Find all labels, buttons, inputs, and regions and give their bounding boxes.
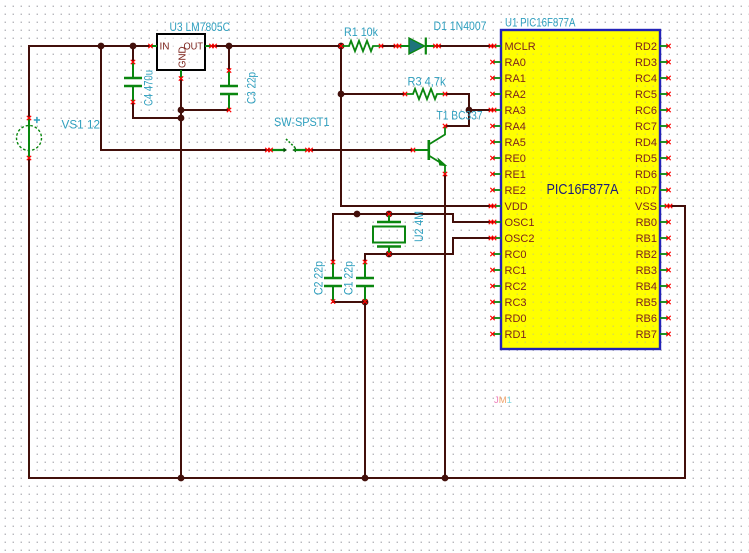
pin RD4 (right) bbox=[635, 137, 671, 149]
wire emitter to ground rail bbox=[444, 174, 446, 478]
junction D OUT/+5 rail bbox=[338, 43, 345, 50]
pin VSS (right) bbox=[635, 201, 672, 213]
svg-text:VSS: VSS bbox=[635, 201, 657, 213]
wire left rail (VS1- down) bbox=[28, 158, 30, 478]
svg-text:RD3: RD3 bbox=[635, 57, 657, 69]
wire D1 to MCLR bbox=[437, 45, 492, 47]
junction F R3-collector-RA3 bbox=[466, 107, 473, 114]
junction I OSC1 wire bbox=[354, 211, 361, 218]
svg-text:T1 BC337: T1 BC337 bbox=[437, 108, 483, 122]
pin RD3 (right) bbox=[635, 57, 671, 69]
svg-text:RD5: RD5 bbox=[635, 153, 657, 165]
switch SW-SPST1 bbox=[265, 139, 313, 152]
junction C OUT/C3 bbox=[226, 43, 233, 50]
pin RB1 (right) bbox=[636, 233, 671, 245]
svg-text:C1 22p: C1 22p bbox=[342, 261, 356, 295]
svg-text:VS1 12: VS1 12 bbox=[62, 117, 101, 131]
pin RB3 (right) bbox=[636, 265, 671, 277]
plus sign of VS1 bbox=[34, 117, 40, 123]
svg-text:RB5: RB5 bbox=[636, 297, 657, 309]
svg-text:IN: IN bbox=[160, 42, 170, 53]
wire OSC1 net (C2/XTAL top) bbox=[333, 214, 492, 262]
svg-text:RD2: RD2 bbox=[635, 41, 657, 53]
resistor R1 10k bbox=[339, 41, 383, 51]
svg-text:C3 22p: C3 22p bbox=[245, 72, 259, 104]
wire C1 bottom to ground rail bbox=[364, 302, 366, 478]
pin RB7 (right) bbox=[636, 329, 671, 341]
wire top rail left (VS1+ to 7805 IN) bbox=[29, 45, 150, 47]
pin RB4 (right) bbox=[636, 281, 671, 293]
wire +5V rail to VDD bbox=[341, 46, 492, 206]
svg-text:RE2: RE2 bbox=[505, 185, 526, 197]
svg-text:RE1: RE1 bbox=[505, 169, 526, 181]
battery VS1 12V bbox=[17, 116, 42, 160]
svg-text:RD0: RD0 bbox=[505, 313, 527, 325]
svg-text:RC1: RC1 bbox=[505, 265, 527, 277]
wire C2 bottom to C1 bottom bbox=[333, 301, 365, 303]
junction M rail bbox=[178, 475, 185, 482]
pin RC7 (right) bbox=[635, 121, 671, 133]
pin RD5 (right) bbox=[635, 153, 671, 165]
wire VS1 top lead bbox=[28, 46, 30, 118]
resistor R3 4,7k bbox=[403, 89, 447, 99]
pin OSC2 (left) bbox=[489, 233, 535, 245]
svg-text:U1 PIC16F877A: U1 PIC16F877A bbox=[505, 16, 576, 30]
pin RC6 (right) bbox=[635, 105, 671, 117]
pin RC5 (right) bbox=[635, 89, 671, 101]
wire switch to T1 base bbox=[309, 149, 413, 151]
regulator U3 LM7805C body bbox=[148, 34, 216, 81]
junction O rail bbox=[442, 475, 449, 482]
pin RB0 (right) bbox=[636, 217, 671, 229]
svg-text:OSC2: OSC2 bbox=[505, 233, 535, 245]
svg-text:RC0: RC0 bbox=[505, 249, 527, 261]
wire R3 to collector node bbox=[445, 94, 469, 126]
svg-text:RC6: RC6 bbox=[635, 105, 657, 117]
svg-text:VDD: VDD bbox=[505, 201, 528, 213]
svg-text:RA0: RA0 bbox=[505, 57, 526, 69]
grid showthrough on IC bbox=[503, 32, 659, 348]
crystal U2 4M bbox=[373, 212, 405, 256]
svg-text:RD7: RD7 bbox=[635, 185, 657, 197]
pin RD6 (right) bbox=[635, 169, 671, 181]
svg-text:RA3: RA3 bbox=[505, 105, 526, 117]
pin RC3 (left) bbox=[490, 297, 526, 309]
pin RE1 (left) bbox=[490, 169, 526, 181]
svg-text:RA4: RA4 bbox=[505, 121, 526, 133]
svg-text:RD6: RD6 bbox=[635, 169, 657, 181]
svg-text:R3 4,7k: R3 4,7k bbox=[408, 75, 447, 89]
svg-text:RC4: RC4 bbox=[635, 73, 657, 85]
pin RE0 (left) bbox=[490, 153, 526, 165]
junction A top rail/switch bbox=[98, 43, 105, 50]
pin RC2 (left) bbox=[490, 281, 526, 293]
junction H gnd/C4 bbox=[178, 115, 185, 122]
wire C4 top drop bbox=[132, 46, 134, 62]
svg-text:RA2: RA2 bbox=[505, 89, 526, 101]
junction L C1/C2 bottom bbox=[362, 299, 369, 306]
pin RC4 (right) bbox=[635, 73, 671, 85]
svg-text:RB2: RB2 bbox=[636, 249, 657, 261]
pin RA2 (left) bbox=[490, 89, 526, 101]
wire gnd node to C3 bottom bbox=[181, 109, 229, 111]
svg-text:RB0: RB0 bbox=[636, 217, 657, 229]
svg-text:U3 LM7805C: U3 LM7805C bbox=[170, 20, 231, 34]
wire OSC2 net (C1/XTAL bottom) bbox=[365, 238, 492, 262]
svg-text:RB4: RB4 bbox=[636, 281, 657, 293]
svg-text:OSC1: OSC1 bbox=[505, 217, 535, 229]
junction E +5/R3 bbox=[338, 91, 345, 98]
junction G gnd/C3 bbox=[178, 107, 185, 114]
pin RA1 (left) bbox=[490, 73, 526, 85]
svg-text:GND: GND bbox=[178, 47, 189, 69]
wire C4 bottom to gnd node bbox=[133, 102, 181, 118]
capacitor C3 22p bbox=[220, 68, 238, 112]
svg-text:RA1: RA1 bbox=[505, 73, 526, 85]
svg-text:C2 22p: C2 22p bbox=[312, 261, 326, 295]
svg-text:RC3: RC3 bbox=[505, 297, 527, 309]
capacitor C4 470u bbox=[124, 60, 142, 104]
svg-text:RC5: RC5 bbox=[635, 89, 657, 101]
svg-text:PIC16F877A: PIC16F877A bbox=[547, 182, 619, 198]
pin RD7 (right) bbox=[635, 185, 671, 197]
wire right rail to VSS bbox=[668, 206, 685, 478]
svg-text:JM1: JM1 bbox=[494, 395, 512, 406]
capacitor C1 22p bbox=[356, 260, 374, 304]
wire 7805 OUT to R1 bbox=[213, 45, 341, 47]
svg-text:RC2: RC2 bbox=[505, 281, 527, 293]
junction K XTAL bottom bbox=[386, 251, 393, 258]
wire ground bottom rail bbox=[29, 477, 685, 479]
pin VDD (left) bbox=[489, 201, 528, 213]
svg-text:SW-SPST1: SW-SPST1 bbox=[274, 115, 330, 129]
pin RD0 (left) bbox=[490, 313, 526, 325]
pin RA5 (left) bbox=[490, 137, 526, 149]
svg-text:RD1: RD1 bbox=[505, 329, 527, 341]
svg-text:RB6: RB6 bbox=[636, 313, 657, 325]
pin MCLR (left) bbox=[489, 41, 536, 53]
svg-text:RA5: RA5 bbox=[505, 137, 526, 149]
pin RC0 (left) bbox=[490, 249, 526, 261]
svg-text:RB3: RB3 bbox=[636, 265, 657, 277]
svg-text:U2 4M: U2 4M bbox=[412, 211, 426, 242]
pin RB5 (right) bbox=[636, 297, 671, 309]
svg-text:C4 470u: C4 470u bbox=[142, 70, 156, 106]
junction N rail bbox=[362, 475, 369, 482]
svg-text:RB1: RB1 bbox=[636, 233, 657, 245]
svg-text:RC7: RC7 bbox=[635, 121, 657, 133]
diode D1 1N4007 bbox=[394, 38, 441, 55]
wire R1 to D1 bbox=[381, 45, 397, 47]
pin RB2 (right) bbox=[636, 249, 671, 261]
pin RC1 (left) bbox=[490, 265, 526, 277]
svg-text:RB7: RB7 bbox=[636, 329, 657, 341]
pin OSC1 (left) bbox=[489, 217, 535, 229]
pin RA3 (left) bbox=[489, 105, 526, 117]
transistor T1 BC337 (NPN) bbox=[411, 124, 447, 176]
wire +5V to R3 bbox=[341, 93, 405, 95]
pin RE2 (left) bbox=[490, 185, 526, 197]
wire supply to switch bbox=[101, 46, 269, 150]
junction B top rail/C4 bbox=[130, 43, 137, 50]
pin RB6 (right) bbox=[636, 313, 671, 325]
svg-text:R1 10k: R1 10k bbox=[344, 25, 379, 39]
wire 7805 GND down to rail bbox=[180, 78, 182, 478]
wire C3 top drop bbox=[228, 46, 230, 70]
IC U1 PIC16F877A body bbox=[501, 30, 660, 349]
capacitor C2 22p bbox=[324, 260, 342, 304]
pin RA4 (left) bbox=[490, 121, 526, 133]
pin RA0 (left) bbox=[490, 57, 526, 69]
pin RD2 (right) bbox=[635, 41, 671, 53]
svg-text:MCLR: MCLR bbox=[505, 41, 536, 53]
wire node to RA3 bbox=[469, 109, 492, 111]
junction J XTAL top bbox=[386, 211, 393, 218]
pin RD1 (left) bbox=[490, 329, 526, 341]
svg-text:RD4: RD4 bbox=[635, 137, 657, 149]
svg-text:D1 1N4007: D1 1N4007 bbox=[434, 19, 487, 33]
svg-text:RE0: RE0 bbox=[505, 153, 526, 165]
